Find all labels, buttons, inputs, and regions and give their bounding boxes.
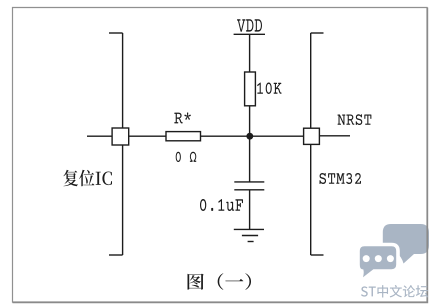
label 0.1uF xyxy=(200,199,243,211)
capacitor top plate xyxy=(234,181,264,183)
reset IC top tick xyxy=(109,32,123,34)
label R* xyxy=(174,112,190,123)
label fuwei-IC xyxy=(63,170,112,187)
watermark logo small chat bubble xyxy=(358,245,398,283)
watermark text ST-zhongwen-luntan xyxy=(361,285,428,298)
wire VDD bar to 10K resistor xyxy=(249,34,251,72)
ground bar long xyxy=(234,228,264,230)
wire resistor R* to junction xyxy=(201,135,250,137)
resistor 10K body xyxy=(245,72,256,106)
STM32 body edge (vertical) xyxy=(310,33,312,255)
label 0-ohm xyxy=(176,152,197,162)
label NRST xyxy=(338,114,372,125)
reset IC body edge (vertical) xyxy=(122,33,124,255)
pin square NRST on STM32 xyxy=(304,128,320,144)
wire junction to NRST pin xyxy=(250,135,304,137)
wire NRST internal stub xyxy=(320,135,350,137)
STM32 top tick xyxy=(311,32,324,34)
resistor R* body xyxy=(166,132,201,141)
wire pin to resistor R* xyxy=(129,135,166,137)
label 10K xyxy=(257,82,281,94)
caption tu(yi) xyxy=(187,273,251,290)
watermark logo big chat bubble xyxy=(383,224,429,264)
STM32 bottom tick xyxy=(311,254,324,256)
reset IC bottom tick xyxy=(109,254,123,256)
ground bar middle xyxy=(242,235,258,237)
VDD power bar xyxy=(234,33,265,35)
pin square on reset IC xyxy=(112,128,129,145)
junction node dot xyxy=(246,133,253,140)
wire reset IC internal stub xyxy=(87,135,112,137)
label STM32 xyxy=(319,173,360,184)
watermark bubble dots xyxy=(363,255,394,262)
capacitor bottom plate xyxy=(234,189,264,191)
label VDD xyxy=(237,19,262,32)
ground bar short xyxy=(248,241,254,243)
wire 10K to junction to capacitor xyxy=(249,106,251,182)
wire capacitor to ground xyxy=(249,190,251,230)
